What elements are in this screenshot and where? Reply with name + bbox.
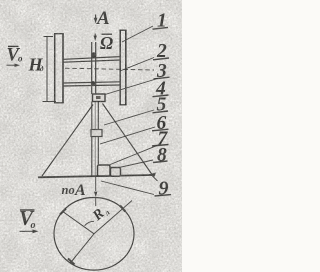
housing bolt mark	[96, 96, 101, 99]
leader line 4	[105, 79, 156, 95]
bearing housing	[93, 94, 106, 102]
section arrow A (top)	[94, 15, 98, 24]
tower collar coupling	[91, 130, 102, 137]
callout number 2	[153, 41, 169, 62]
H dimension label	[28, 55, 45, 75]
hub knob lower	[91, 81, 95, 85]
right blade (front view)	[119, 30, 126, 105]
blade section mark lower-left	[68, 259, 75, 265]
callout number 8	[153, 145, 168, 166]
left blade (front view)	[54, 34, 64, 104]
leader line 2	[120, 58, 154, 72]
callout number 9	[155, 178, 172, 200]
ground line	[38, 175, 154, 177]
blade radius line lower-left	[70, 234, 94, 263]
upper strut (traverse)	[64, 57, 121, 63]
lower strut (traverse)	[64, 82, 121, 86]
blade radius line with R label	[94, 201, 132, 234]
radius label R	[89, 202, 112, 225]
leader line 6	[100, 127, 155, 144]
rotor shaft	[92, 42, 96, 94]
leader line 7	[109, 144, 160, 165]
generator box right	[111, 168, 121, 177]
wind vector V0 (top left)	[7, 46, 24, 68]
axis arrow at shaft top	[94, 34, 97, 42]
callout number 5	[153, 95, 169, 116]
callout number 3	[154, 61, 170, 82]
leader line 8	[119, 160, 153, 168]
paper background	[0, 0, 182, 272]
wind vector V0 (bottom left)	[19, 206, 39, 233]
right guy wire	[103, 104, 153, 175]
label Omega with overline	[100, 33, 113, 53]
blade radius line upper-left	[62, 211, 94, 234]
leader line 3 (dashed)	[65, 68, 154, 70]
azimuth angle arc	[85, 221, 94, 225]
left guy wire	[42, 105, 93, 177]
callout number 4	[153, 79, 169, 100]
callout number 1	[153, 11, 169, 32]
rotor circle (top view)	[54, 198, 134, 271]
tower	[92, 102, 99, 177]
view label "po A"	[62, 182, 87, 199]
leader line 5	[104, 110, 154, 125]
generator box left	[98, 165, 111, 176]
scan noise overlay	[0, 0, 1, 1]
top-view axis line with arrow	[94, 177, 97, 206]
callout number 6	[152, 113, 169, 134]
H dimension bracket	[43, 37, 57, 102]
blade section mark upper-left	[60, 209, 66, 215]
callout number 7	[152, 129, 169, 150]
leader line 9 with anchor arrow	[101, 173, 158, 195]
hub knob on shaft	[91, 52, 96, 57]
blade section mark upper-right	[120, 206, 125, 212]
leader line 1	[122, 26, 153, 42]
